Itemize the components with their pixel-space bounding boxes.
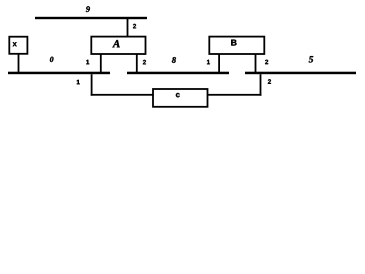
label C (176, 93, 180, 97)
node 2 label (below right bus) (268, 79, 271, 83)
wire from left bus to C (horizontal) (91, 94, 154, 96)
label x (13, 42, 17, 46)
wire top bus node 9 (35, 17, 147, 19)
wire stub A pin 2 (136, 55, 138, 73)
pin 1 label of B (207, 60, 210, 64)
label B (231, 40, 236, 46)
node 0 label (50, 57, 53, 62)
pin 2 label of A (top) (133, 24, 136, 28)
node 9 label (86, 6, 90, 12)
wire bus segment node 8 (middle) (127, 72, 229, 75)
wire from C up to right bus (vertical) (260, 74, 262, 96)
node 8 label (172, 57, 176, 63)
node 1 label (below left bus) (77, 80, 80, 84)
wire bus segment node 5 (right) (245, 72, 356, 75)
pin 1 label of A (86, 60, 89, 64)
wire from C to right bus (horizontal) (208, 94, 262, 96)
pin 2 label of B (265, 60, 268, 64)
node 5 label (309, 56, 313, 62)
wire stub B pin 2 (255, 55, 257, 73)
pin 2 label of A (143, 60, 146, 64)
wire stub X to bus 0 (18, 55, 20, 73)
wire bus segment node 0 (left) (8, 72, 110, 75)
wire drop from bus 9 to box A pin 2 (127, 19, 129, 37)
wire stub A pin 1 (100, 55, 102, 73)
box X (9, 37, 27, 54)
box C (153, 89, 208, 107)
box B (209, 37, 264, 54)
label A (112, 40, 119, 47)
wire from left bus down to C (vertical) (91, 74, 93, 96)
wire stub B pin 1 (218, 55, 220, 73)
box A (91, 37, 145, 54)
